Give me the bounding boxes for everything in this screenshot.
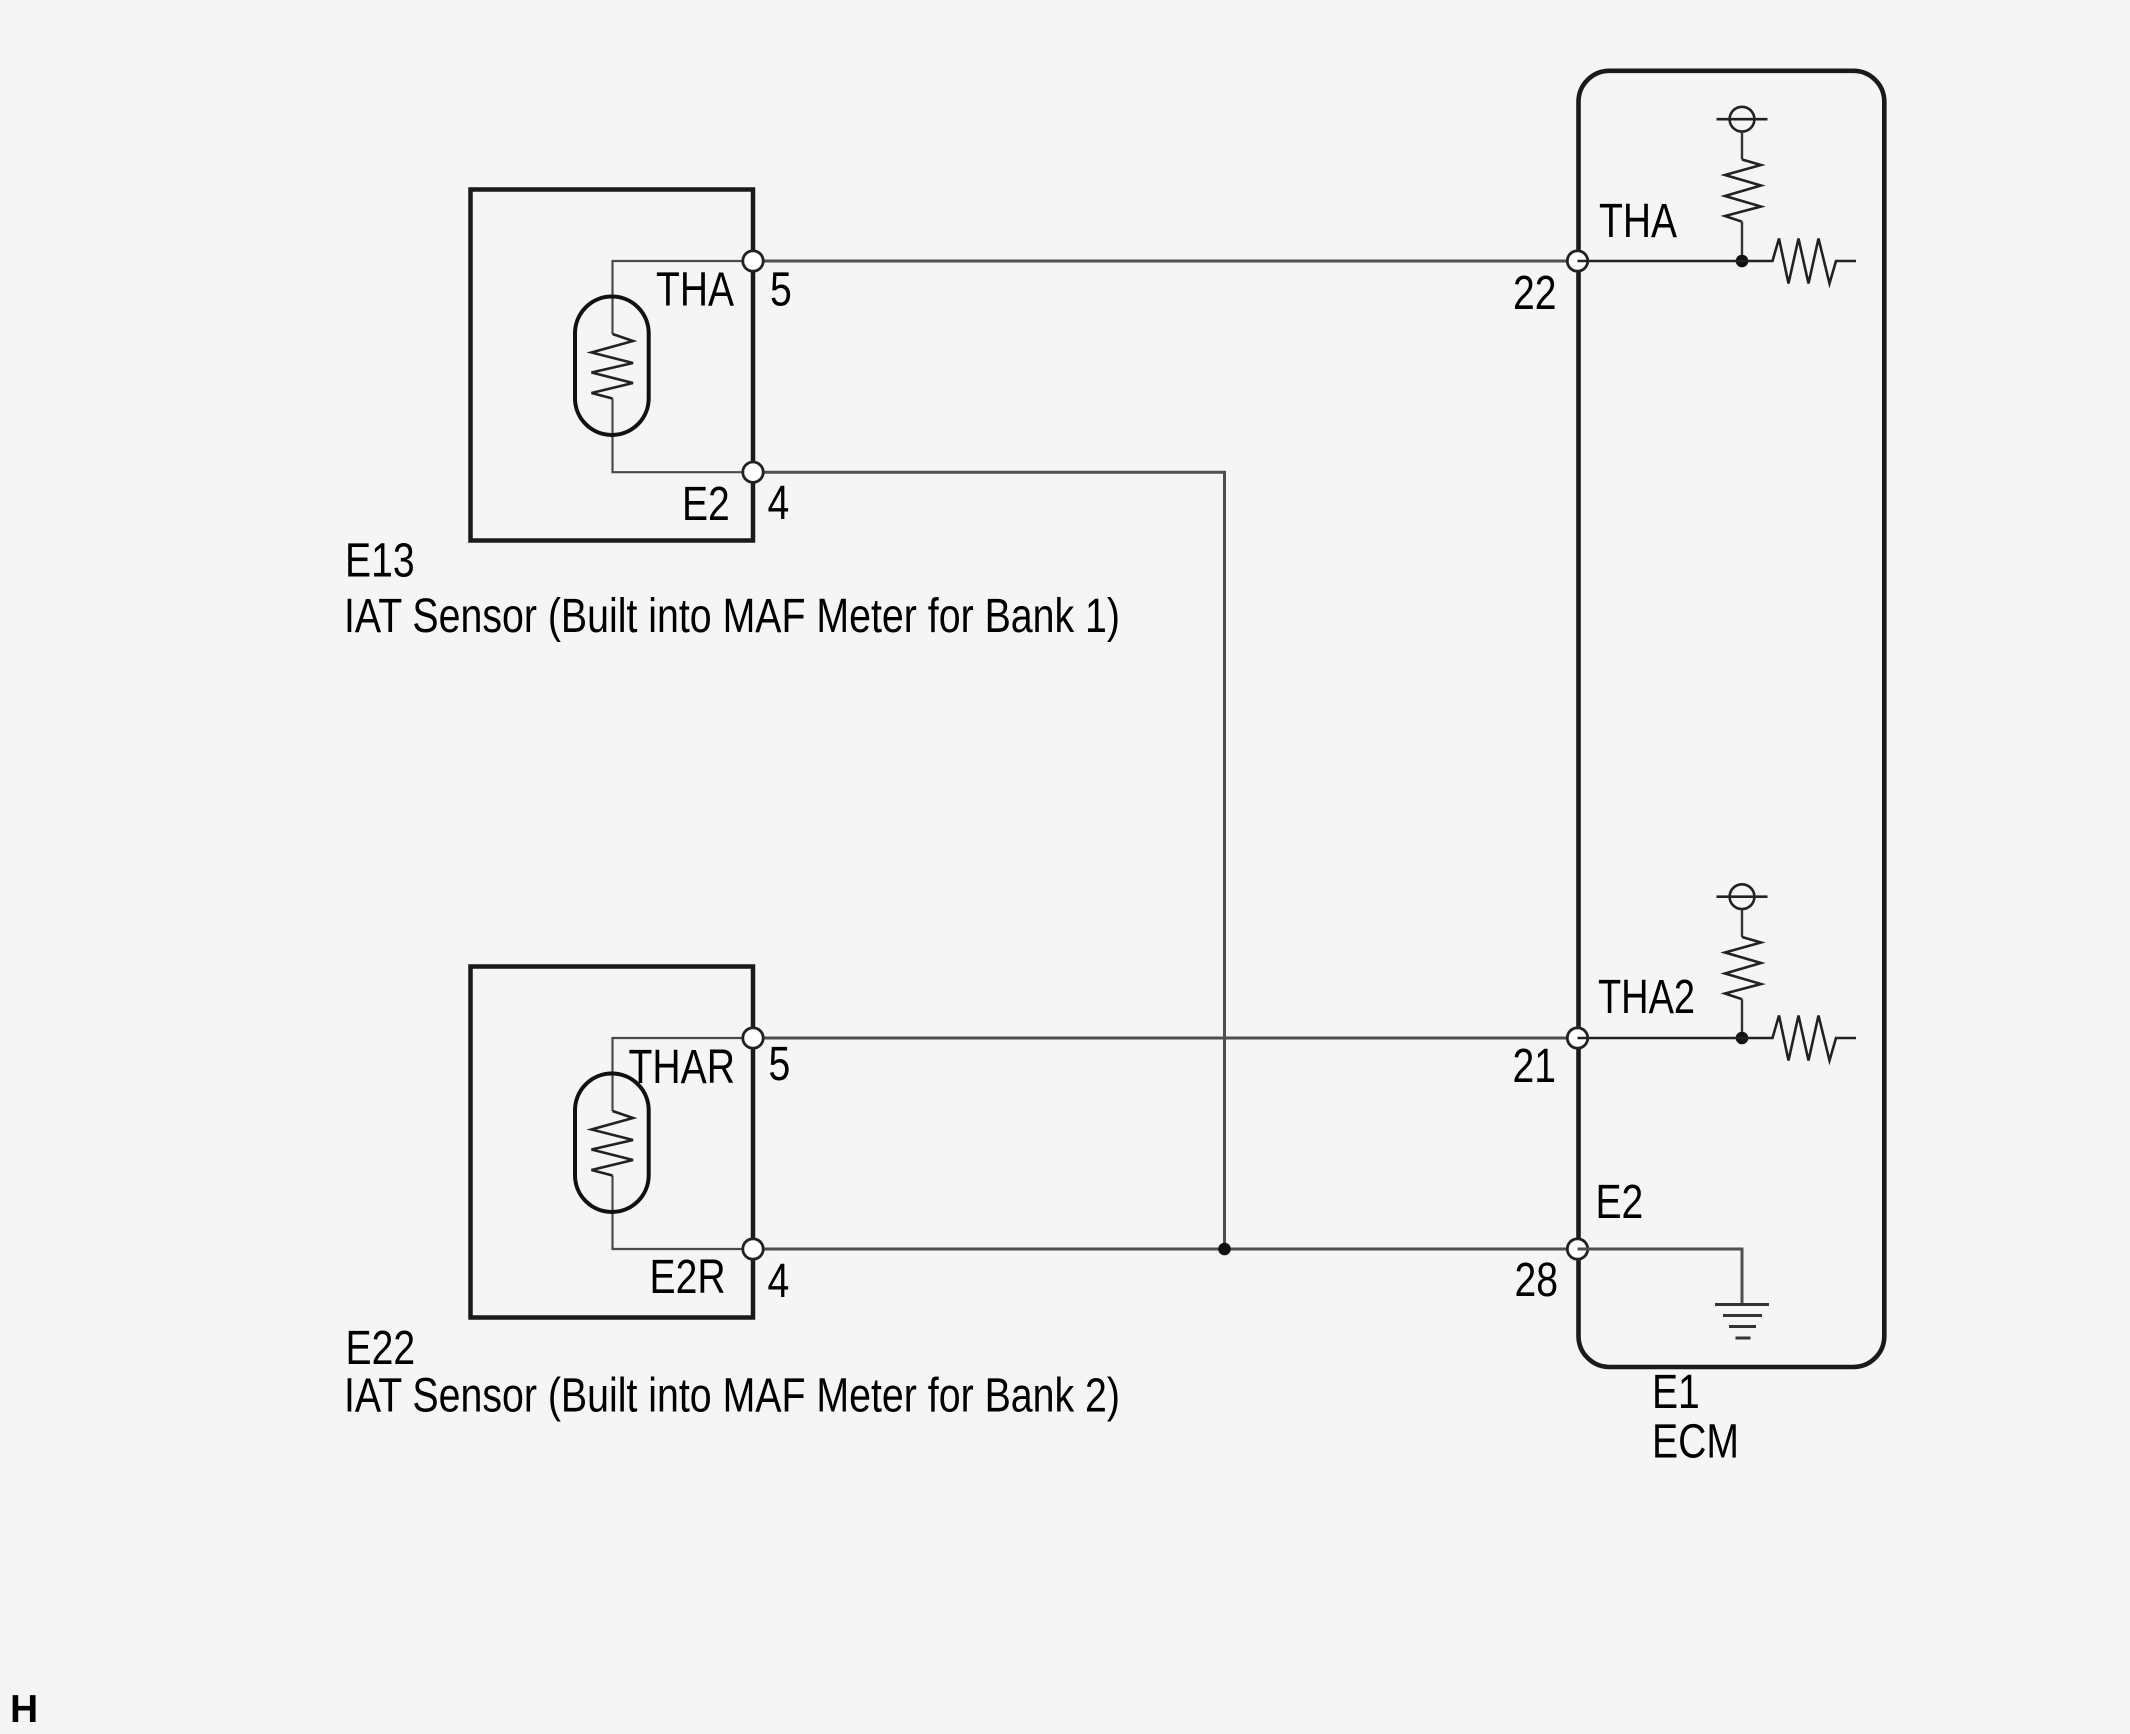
svg-text:E2: E2: [1596, 1176, 1644, 1229]
wire internal E2 (E13): [613, 399, 754, 473]
thermistor R2 capsule (E22): [575, 1074, 649, 1213]
ECM box E1: [1579, 71, 1885, 1367]
thermistor R1 capsule (E13): [575, 297, 649, 436]
wire resistor to THA node: [1741, 222, 1743, 261]
wire internal THA (E13): [613, 261, 754, 334]
svg-text:THA: THA: [1599, 195, 1677, 248]
wire resistor to THA2 node: [1741, 999, 1743, 1038]
connector box E22 (MAF meter bank 2): [471, 967, 754, 1318]
svg-text:28: 28: [1515, 1254, 1559, 1307]
svg-text:THA2: THA2: [1598, 971, 1695, 1024]
power symbol B+ (THA pull-up): [1730, 107, 1755, 132]
pin 21 circle (ECM THA2): [1567, 1028, 1587, 1048]
junction dot on E2R wire: [1218, 1243, 1231, 1256]
pin 5 circle (E22 THAR): [743, 1028, 763, 1048]
resistor R6 horizontal zigzag (THA2 input): [1578, 1016, 1857, 1061]
svg-text:E13: E13: [345, 535, 415, 588]
svg-text:THAR: THAR: [629, 1041, 736, 1094]
svg-text:IAT Sensor (Built into MAF Met: IAT Sensor (Built into MAF Meter for Ban…: [344, 590, 1120, 643]
thermistor R1 zigzag (E13): [592, 334, 634, 399]
svg-text:IAT Sensor (Built into MAF Met: IAT Sensor (Built into MAF Meter for Ban…: [344, 1370, 1120, 1423]
wire power to resistor (THA2 pull-up): [1741, 909, 1743, 937]
pin 4 circle (E13 E2): [743, 462, 763, 482]
svg-text:4: 4: [768, 477, 790, 530]
wire THA: E13 pin 5 to ECM pin 22: [753, 260, 1578, 263]
svg-text:E1: E1: [1652, 1366, 1700, 1419]
svg-text:H: H: [10, 1688, 38, 1731]
svg-text:5: 5: [770, 264, 792, 317]
svg-text:4: 4: [768, 1255, 790, 1308]
wire THA2: E22 pin 5 to ECM pin 21: [753, 1037, 1578, 1040]
resistor R4 horizontal zigzag (THA input): [1578, 239, 1857, 284]
wire E2 to ground inside ECM: [1578, 1249, 1743, 1305]
thermistor R2 zigzag (E22): [592, 1111, 634, 1176]
svg-text:5: 5: [769, 1038, 791, 1091]
svg-text:ECM: ECM: [1652, 1416, 1739, 1469]
connector box E13 (MAF meter bank 1): [471, 190, 754, 541]
wire E2R: E22 pin 4 to ECM pin 28: [753, 1248, 1578, 1251]
wire internal E2R (E22): [613, 1176, 754, 1250]
svg-text:E2: E2: [682, 478, 730, 531]
wire internal THAR (E22): [613, 1038, 754, 1111]
wire power to resistor (THA pull-up): [1741, 132, 1743, 160]
pin 5 circle (E13 THA): [743, 251, 763, 271]
pin 22 circle (ECM THA): [1567, 251, 1587, 271]
pin 4 circle (E22 E2R): [743, 1239, 763, 1259]
svg-text:THA: THA: [656, 264, 734, 317]
resistor R5 vertical zigzag (THA2 pull-up): [1725, 937, 1761, 999]
power symbol B+ (THA2 pull-up): [1730, 884, 1755, 909]
svg-text:E22: E22: [346, 1322, 416, 1375]
ground symbol: [1715, 1305, 1769, 1339]
svg-text:21: 21: [1513, 1040, 1557, 1093]
junction dot THA node: [1736, 255, 1749, 268]
resistor R3 vertical zigzag (THA pull-up): [1725, 160, 1761, 222]
wire E2: E13 pin 4 right then down to E2R wire: [753, 472, 1225, 1249]
pin 28 circle (ECM E2): [1567, 1239, 1587, 1259]
junction dot THA2 node: [1736, 1032, 1749, 1045]
svg-text:22: 22: [1513, 267, 1557, 320]
svg-text:E2R: E2R: [650, 1251, 726, 1304]
